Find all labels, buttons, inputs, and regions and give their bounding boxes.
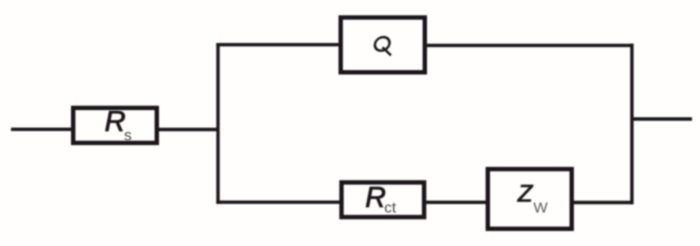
wire input lead left (11, 128, 73, 131)
wire left vertical branch (216, 43, 219, 204)
impedance Zw (Warburg) box (488, 169, 572, 229)
svg-text:W: W (533, 200, 548, 217)
wire Zw to right vertical (573, 201, 633, 204)
capacitor Q (CPE) box (341, 18, 425, 73)
wire top rail to Q (216, 43, 340, 46)
wire Q to right vertical (427, 44, 633, 47)
svg-text:Z: Z (517, 180, 534, 207)
svg-text:s: s (124, 127, 132, 144)
wire Rct to Zw (426, 201, 487, 204)
wire right vertical branch (630, 44, 633, 205)
wire Rs to left junction node (159, 128, 219, 131)
wire output lead right (631, 117, 692, 120)
wire bottom rail to Rct (216, 200, 341, 203)
resistor Rct box (342, 182, 425, 217)
label Q value (374, 37, 391, 55)
svg-text:R: R (365, 182, 386, 214)
resistor Rs box (73, 108, 157, 143)
svg-text:R: R (105, 106, 126, 138)
svg-text:ct: ct (384, 200, 397, 217)
